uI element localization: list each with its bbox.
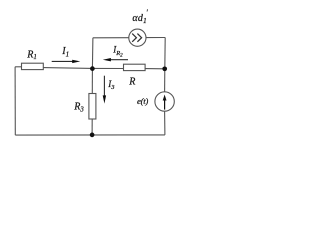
wire top right horizontal <box>146 37 165 39</box>
svg-text:I3: I3 <box>107 79 115 91</box>
wire right vertical lower <box>164 111 166 135</box>
arrow I1 <box>52 60 81 63</box>
svg-text:R1: R1 <box>26 49 37 61</box>
wire left stub to R1 <box>15 66 21 68</box>
node center junction <box>90 66 95 71</box>
voltage source circle e(t) <box>155 92 174 111</box>
arrow IR2 <box>103 58 128 61</box>
svg-text:R3: R3 <box>73 102 84 114</box>
resistor R1 <box>22 63 44 69</box>
wire right vertical middle <box>164 69 166 92</box>
resistor R <box>124 64 146 70</box>
svg-text:αd1: αd1 <box>132 13 147 25</box>
wire bottom horizontal <box>15 134 165 136</box>
arrow I3 <box>103 76 106 104</box>
svg-text:′: ′ <box>146 8 148 17</box>
resistor R3 <box>89 94 96 120</box>
wire R3 bottom to bottom junction <box>91 119 93 135</box>
wire junction to R3 top <box>91 68 93 93</box>
wire R1 to center junction <box>43 67 92 70</box>
node right junction <box>162 66 167 71</box>
svg-text:e(t): e(t) <box>137 96 148 106</box>
svg-text:IR2: IR2 <box>112 45 123 59</box>
current source circle cd <box>129 29 146 46</box>
wire right vertical upper <box>164 38 166 69</box>
chevrons inside source <box>132 34 141 42</box>
wire top left horizontal <box>93 37 129 39</box>
wire center vertical branch upper <box>91 38 94 69</box>
svg-text:R: R <box>128 76 135 87</box>
wire center junction to R <box>92 67 123 69</box>
wire R to right junction <box>145 68 165 70</box>
node bottom junction <box>90 133 95 138</box>
wire left vertical <box>14 67 16 135</box>
arrow inside e(t) <box>163 95 167 110</box>
svg-text:I1: I1 <box>61 46 69 58</box>
